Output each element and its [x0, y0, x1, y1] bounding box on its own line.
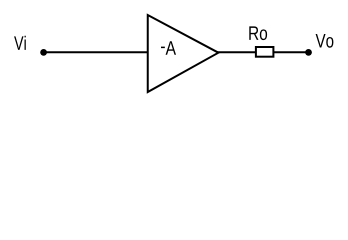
- node Vi label: [14, 36, 26, 50]
- resistor Ro (box symbol): [256, 47, 274, 57]
- op-amp U1 (inverting amplifier triangle): [148, 15, 219, 92]
- output node dot: [305, 49, 312, 56]
- value label Ro: [249, 26, 267, 40]
- wire resistor to output node: [274, 51, 309, 53]
- gain value label -A: [161, 41, 176, 54]
- wire input node to amplifier: [44, 51, 149, 53]
- wire amplifier output to resistor: [217, 51, 256, 53]
- node Vo label: [316, 34, 334, 48]
- input node dot: [40, 49, 47, 56]
